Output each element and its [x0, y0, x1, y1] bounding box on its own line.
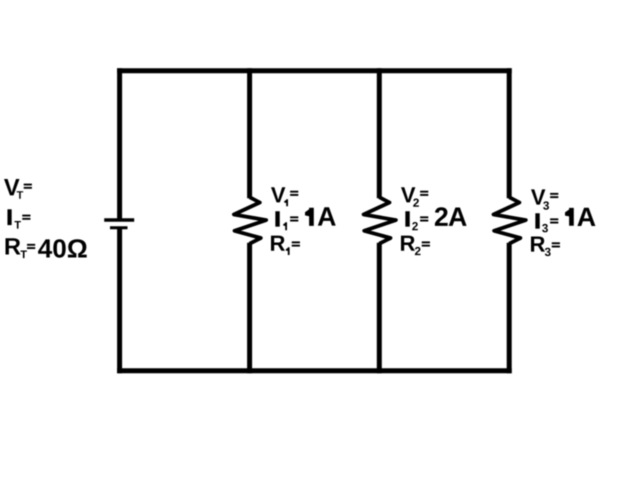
- label I1=: [275, 211, 298, 230]
- resistor R1: [234, 197, 266, 244]
- wire: top bus: [117, 68, 512, 73]
- resistor R2: [364, 197, 396, 244]
- battery B1 negative plate: [110, 226, 128, 229]
- wire: branch 2 upper lead: [377, 68, 382, 198]
- value I3: [565, 208, 595, 226]
- label R_T=: [6, 238, 36, 258]
- value I1: [305, 207, 336, 226]
- label V2=: [401, 187, 428, 207]
- wire: left branch upper lead (top bus to battery): [117, 68, 122, 220]
- wire: left branch lower lead (battery to bottom bus): [117, 228, 122, 373]
- label R1=: [271, 236, 300, 255]
- wire: branch 1 upper lead: [247, 68, 252, 198]
- wire: branch 3 lower lead: [507, 243, 512, 374]
- label R3=: [531, 237, 560, 257]
- wire: branch 1 lower lead: [247, 243, 252, 374]
- label V1=: [271, 187, 298, 206]
- label V_T=: [4, 179, 32, 199]
- label I_T=: [7, 209, 30, 228]
- label I3=: [535, 213, 558, 232]
- battery B1 positive plate: [104, 218, 134, 221]
- value R_T 40 ohm: [38, 239, 87, 258]
- wire: branch 3 upper lead: [507, 68, 512, 198]
- label V3=: [531, 189, 558, 209]
- wire: branch 2 lower lead: [377, 243, 382, 374]
- resistor R3: [494, 197, 526, 244]
- wire: bottom bus: [117, 368, 512, 373]
- label R2=: [401, 236, 430, 256]
- value I2: [435, 207, 467, 226]
- label I2=: [405, 211, 428, 230]
